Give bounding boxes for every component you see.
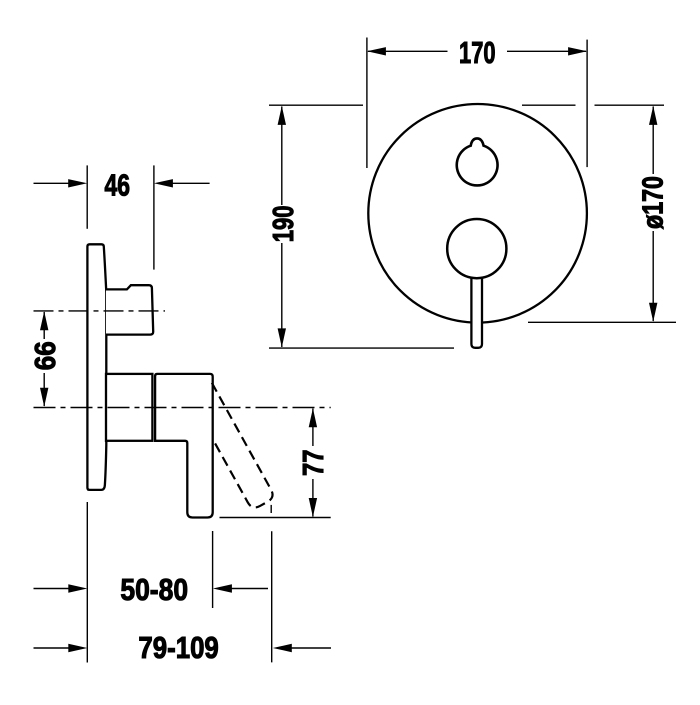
66 top arrow xyxy=(40,311,48,330)
lever tip extension dash xyxy=(270,505,272,513)
170 dimension line right part xyxy=(507,50,586,52)
trim plate circle xyxy=(368,104,587,323)
mixer handle (side profile, L-shape) xyxy=(155,374,213,518)
lever handle bar (front view) xyxy=(471,268,482,348)
handle alternate position (dashed lever) xyxy=(189,383,276,510)
46 right arrow xyxy=(154,179,173,187)
190 top arrow xyxy=(278,106,286,125)
77 dimension line upper part xyxy=(312,409,314,447)
lever tip extension line xyxy=(271,531,273,662)
svg-text:ø170: ø170 xyxy=(638,176,670,229)
50-80 left arrow tail xyxy=(34,588,70,590)
ø170 dimension line lower part xyxy=(652,231,654,321)
79-109 left arrow tail xyxy=(34,647,70,649)
66 dimension line upper part xyxy=(43,312,45,339)
ø170 dimension line upper part xyxy=(652,107,654,175)
79-109 right arrow tail xyxy=(291,647,331,649)
diverter knob centerline xyxy=(34,310,166,312)
ø170 top extension line left segment xyxy=(522,104,576,106)
svg-text:50-80: 50-80 xyxy=(120,572,188,607)
77 dimension line lower part xyxy=(312,479,314,517)
svg-text:170: 170 xyxy=(459,35,496,70)
diverter knob (side profile) xyxy=(106,285,153,334)
50-80 right arrow tail xyxy=(231,588,268,590)
46 right extension line xyxy=(153,165,155,269)
ø170 top extension line right segment xyxy=(595,104,665,106)
ø170 bottom arrow xyxy=(649,303,657,322)
46 left extension line xyxy=(86,165,88,228)
svg-text:46: 46 xyxy=(104,167,130,202)
190 bottom extension line xyxy=(269,347,454,349)
diverter knob circle with top bump (front view) xyxy=(457,138,498,185)
190 dimension line upper part xyxy=(281,107,283,206)
66 bottom arrow xyxy=(40,388,48,407)
77 top arrow xyxy=(309,408,317,427)
170 left arrow xyxy=(367,47,386,55)
wall plane extension line xyxy=(86,502,88,663)
170 right extension line xyxy=(586,40,588,168)
50-80 left arrow xyxy=(68,584,87,592)
46 left arrow xyxy=(68,179,87,187)
svg-text:77: 77 xyxy=(298,450,330,477)
170 right arrow xyxy=(568,47,587,55)
77 bottom extension line xyxy=(220,517,331,519)
svg-text:79-109: 79-109 xyxy=(138,630,218,665)
50-80 right arrow xyxy=(213,584,232,592)
handle hub circle (front view) xyxy=(447,219,506,278)
190 top extension line xyxy=(269,104,363,106)
handle front extension line xyxy=(212,531,214,608)
cartridge sleeve (side profile) xyxy=(106,374,152,441)
svg-text:190: 190 xyxy=(268,206,300,243)
190 dimension line lower part xyxy=(281,243,283,347)
66 dimension line lower part xyxy=(43,373,45,406)
79-109 right arrow xyxy=(273,644,292,652)
170 left extension line xyxy=(366,38,368,169)
170 dimension line left part xyxy=(368,50,448,52)
valve centerline xyxy=(34,407,331,409)
svg-text:66: 66 xyxy=(30,341,62,370)
190 bottom arrow xyxy=(278,328,286,347)
ø170 bottom extension line xyxy=(528,321,676,323)
ø170 top arrow xyxy=(649,106,657,125)
77 bottom arrow xyxy=(309,498,317,517)
46 right arrow tail xyxy=(172,182,210,184)
wall plate (escutcheon side profile) xyxy=(87,244,106,490)
46 left arrow tail xyxy=(34,182,70,184)
79-109 left arrow xyxy=(68,644,87,652)
